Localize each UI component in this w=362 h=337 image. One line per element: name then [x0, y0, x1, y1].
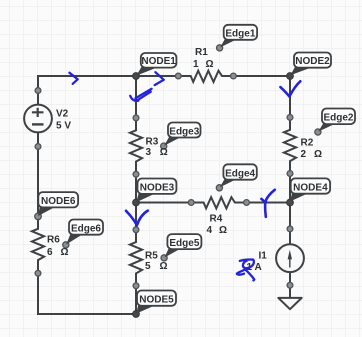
resistor R5 zigzag — [130, 230, 142, 286]
blue chevron mark a (top wire left) — [69, 73, 77, 84]
svg-text:Edge5: Edge5 — [169, 238, 199, 249]
svg-text:V2: V2 — [56, 109, 69, 120]
resistor R6 zigzag — [32, 216, 44, 273]
node label NODE6 — [38, 192, 78, 216]
anchor dot Edge5 — [161, 255, 167, 261]
svg-text:4: 4 — [207, 225, 213, 236]
svg-text:Edge6: Edge6 — [71, 224, 101, 235]
wire bottom — [37, 313, 136, 315]
svg-text:R4: R4 — [210, 214, 223, 225]
wire node3 row left — [136, 202, 192, 204]
terminal R6 pin 1 / node NODE6 — [35, 213, 42, 220]
blue check mark f (NODE4) — [265, 190, 275, 217]
svg-text:1: 1 — [193, 59, 199, 70]
terminal R5 pin 2 — [133, 283, 139, 289]
resistor R2 zigzag — [284, 117, 296, 173]
svg-text:Edge2: Edge2 — [323, 113, 353, 124]
V2 minus sign — [32, 123, 44, 125]
voltage source V2 circle — [24, 105, 52, 133]
node NODE4 junction — [287, 199, 294, 206]
terminal R1 pin 1 — [175, 73, 181, 79]
wire top left: V2 to R1 — [38, 75, 179, 77]
svg-text:NODE2: NODE2 — [295, 56, 330, 67]
svg-text:Edge3: Edge3 — [169, 126, 199, 137]
node label NODE5 — [136, 291, 176, 314]
terminal R4 pin 2 — [244, 200, 250, 206]
anchor dot Edge3 — [161, 143, 167, 149]
node label NODE4 — [290, 178, 330, 201]
terminal R5 pin 1 — [133, 227, 139, 233]
terminal R1 pin 2 — [231, 73, 237, 79]
wire node3 row right — [246, 202, 290, 204]
svg-text:3: 3 — [146, 147, 152, 158]
wire left column lower — [37, 273, 39, 314]
wire middle column mid — [135, 174, 137, 230]
edge label Edge2 — [318, 109, 355, 132]
terminal R2 pin 1 — [287, 115, 293, 121]
wire middle column lower — [135, 285, 137, 314]
svg-text:Ω: Ω — [160, 147, 168, 158]
svg-text:NODE5: NODE5 — [139, 294, 174, 305]
blue check mark d (NODE2) — [280, 81, 300, 96]
wire right column lower — [289, 272, 291, 297]
edge label Edge1 — [220, 25, 257, 48]
resistor R4 zigzag — [191, 197, 246, 208]
svg-text:NODE6: NODE6 — [41, 196, 76, 207]
resistor R3 zigzag — [130, 118, 142, 174]
blue check mark e (NODE3) — [126, 211, 148, 226]
edge label Edge6 — [66, 220, 103, 245]
terminal I1 pin 1 — [287, 226, 293, 232]
node label NODE2 — [290, 53, 331, 76]
svg-text:Ω: Ω — [314, 149, 322, 160]
anchor dot Edge1 — [217, 45, 223, 51]
node NODE5 junction — [133, 311, 140, 318]
blue chevron mark b (right of NODE1) — [155, 72, 164, 85]
svg-text:5 V: 5 V — [56, 121, 71, 132]
svg-text:NODE3: NODE3 — [140, 183, 175, 194]
edge label Edge4 — [220, 164, 257, 187]
svg-text:Edge1: Edge1 — [225, 28, 255, 39]
blue scribble mark g (handwritten 2 over I1 value) — [240, 260, 254, 269]
ground — [278, 298, 301, 309]
anchor dot Edge4 — [216, 185, 222, 191]
wire left column upper — [37, 75, 39, 105]
terminal R6 pin 2 — [35, 270, 41, 276]
wire right column mid — [289, 173, 291, 244]
resistor R1 zigzag — [178, 71, 233, 82]
terminal R3 pin 2 — [133, 171, 139, 177]
edge label Edge3 — [164, 123, 200, 146]
svg-text:Ω: Ω — [206, 59, 214, 70]
wire left column middle — [37, 132, 39, 217]
svg-text:R2: R2 — [301, 138, 314, 149]
svg-text:I1: I1 — [259, 251, 268, 262]
V2 plus sign — [32, 108, 44, 117]
terminal V2 pin + — [35, 88, 41, 94]
terminal R4 pin 1 — [188, 200, 194, 206]
svg-text:NODE1: NODE1 — [141, 56, 176, 67]
svg-text:5: 5 — [145, 261, 151, 272]
blue scribble mark c (below NODE1) — [136, 89, 152, 99]
wire right column upper — [289, 76, 291, 118]
svg-text:Ω: Ω — [219, 225, 227, 236]
node NODE1 junction — [133, 73, 140, 80]
svg-text:Ω: Ω — [61, 247, 69, 258]
edge label Edge5 — [165, 234, 202, 257]
svg-text:NODE4: NODE4 — [293, 182, 328, 193]
node NODE2 junction — [287, 73, 294, 80]
svg-text:Edge4: Edge4 — [225, 168, 255, 179]
svg-text:R6: R6 — [47, 235, 60, 246]
terminal V2 pin - — [35, 144, 41, 150]
terminal I1 pin 2 — [287, 282, 293, 288]
current source I1 circle — [276, 244, 304, 272]
svg-text:R3: R3 — [146, 137, 159, 148]
svg-text:2: 2 — [301, 149, 307, 160]
terminal R3 pin 1 — [133, 115, 139, 121]
svg-text:6: 6 — [47, 247, 53, 258]
node label NODE1 — [137, 53, 177, 76]
node NODE3 junction — [133, 199, 140, 206]
node label NODE3 — [136, 179, 176, 203]
svg-text:R5: R5 — [145, 251, 158, 262]
svg-text:R1: R1 — [195, 47, 208, 58]
terminal R2 pin 2 — [287, 171, 293, 177]
anchor dot Edge2 — [315, 129, 321, 135]
wire top right: R1 to NODE2 — [233, 75, 290, 77]
anchor dot Edge6 — [63, 242, 69, 248]
svg-text:Ω: Ω — [160, 261, 168, 272]
wire middle column upper — [135, 76, 137, 119]
I1 arrow — [289, 253, 291, 268]
